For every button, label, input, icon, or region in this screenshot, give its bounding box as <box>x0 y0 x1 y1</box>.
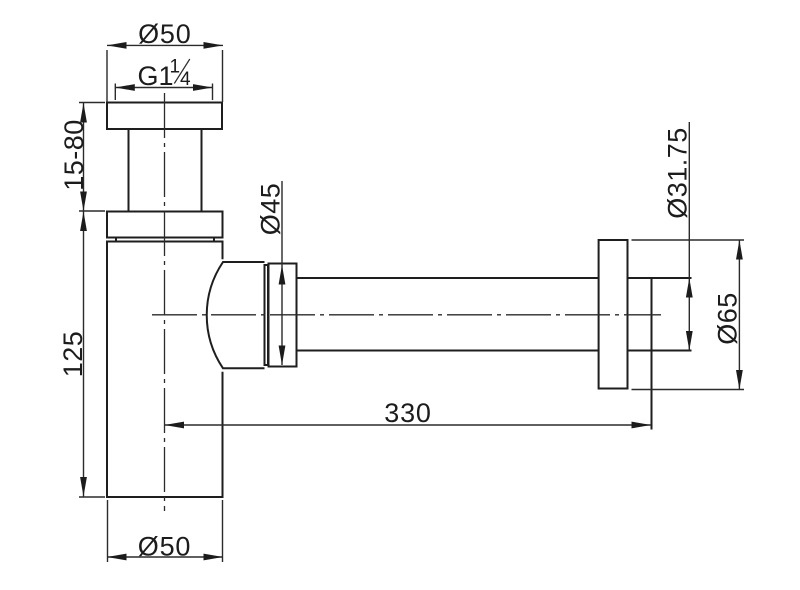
dim Ø65: dimension line <box>738 240 740 390</box>
dim 125: label <box>58 331 88 378</box>
dim 330: dimension line <box>165 424 652 426</box>
vertical centerline of bottle <box>164 93 166 511</box>
dim Ø50 top: dimension line <box>107 44 223 46</box>
svg-text:330: 330 <box>384 398 431 428</box>
svg-text:125: 125 <box>58 331 88 378</box>
outlet seal washer <box>265 265 269 365</box>
dim Ø50 bottom: dimension line <box>107 556 223 558</box>
svg-text:Ø65: Ø65 <box>713 292 743 345</box>
dim G1 1/4: label <box>138 57 192 92</box>
dim Ø50 bottom: label <box>138 532 191 562</box>
dim 125: dimension line <box>83 212 85 497</box>
horizontal centerline of pipe <box>152 314 661 316</box>
dim Ø45: dimension line <box>281 265 283 365</box>
dim 330: label <box>384 398 431 428</box>
svg-text:Ø50: Ø50 <box>138 532 191 562</box>
svg-text:1: 1 <box>170 57 181 78</box>
horizontal pipe <box>297 278 599 351</box>
dim G1 1/4: extension ticks <box>115 84 212 101</box>
dim 15-80: label <box>59 119 89 191</box>
dim Ø31.75: label <box>663 127 693 219</box>
svg-text:4: 4 <box>180 69 191 90</box>
svg-text:Ø45: Ø45 <box>256 183 286 236</box>
bottle body <box>107 242 223 498</box>
dim Ø65: extension lines <box>632 240 745 390</box>
dim Ø50 bottom: extension lines <box>108 500 223 562</box>
dim Ø45: leader from label <box>281 181 283 265</box>
seal washer under nut <box>116 238 214 242</box>
compression nut (top of bottle) <box>107 212 223 238</box>
dim 15-80: dimension line <box>83 103 85 211</box>
dim Ø50 top: label <box>138 19 191 49</box>
dim G1 1/4: dimension line <box>115 87 212 89</box>
dim Ø65: label <box>713 292 743 345</box>
svg-text:G1: G1 <box>138 61 174 91</box>
dim Ø45: label <box>256 183 286 236</box>
wall plate (top escutcheon) <box>107 103 222 130</box>
inlet tube <box>129 129 202 212</box>
svg-text:Ø31.75: Ø31.75 <box>663 127 693 219</box>
dim Ø50 top: extension lines <box>107 50 223 102</box>
svg-text:15-80: 15-80 <box>59 119 89 191</box>
svg-text:Ø50: Ø50 <box>138 19 191 49</box>
dim Ø31.75: leader from label <box>688 122 690 278</box>
dim Ø31.75: dimension line <box>688 278 690 351</box>
dim 15-80: extension lines <box>79 103 105 212</box>
wall flange (right) <box>599 240 628 389</box>
outlet nut <box>269 264 297 367</box>
pipe stub through flange <box>628 278 692 430</box>
dim 125: extension line at body bottom <box>79 496 105 498</box>
outlet bell <box>207 262 265 368</box>
